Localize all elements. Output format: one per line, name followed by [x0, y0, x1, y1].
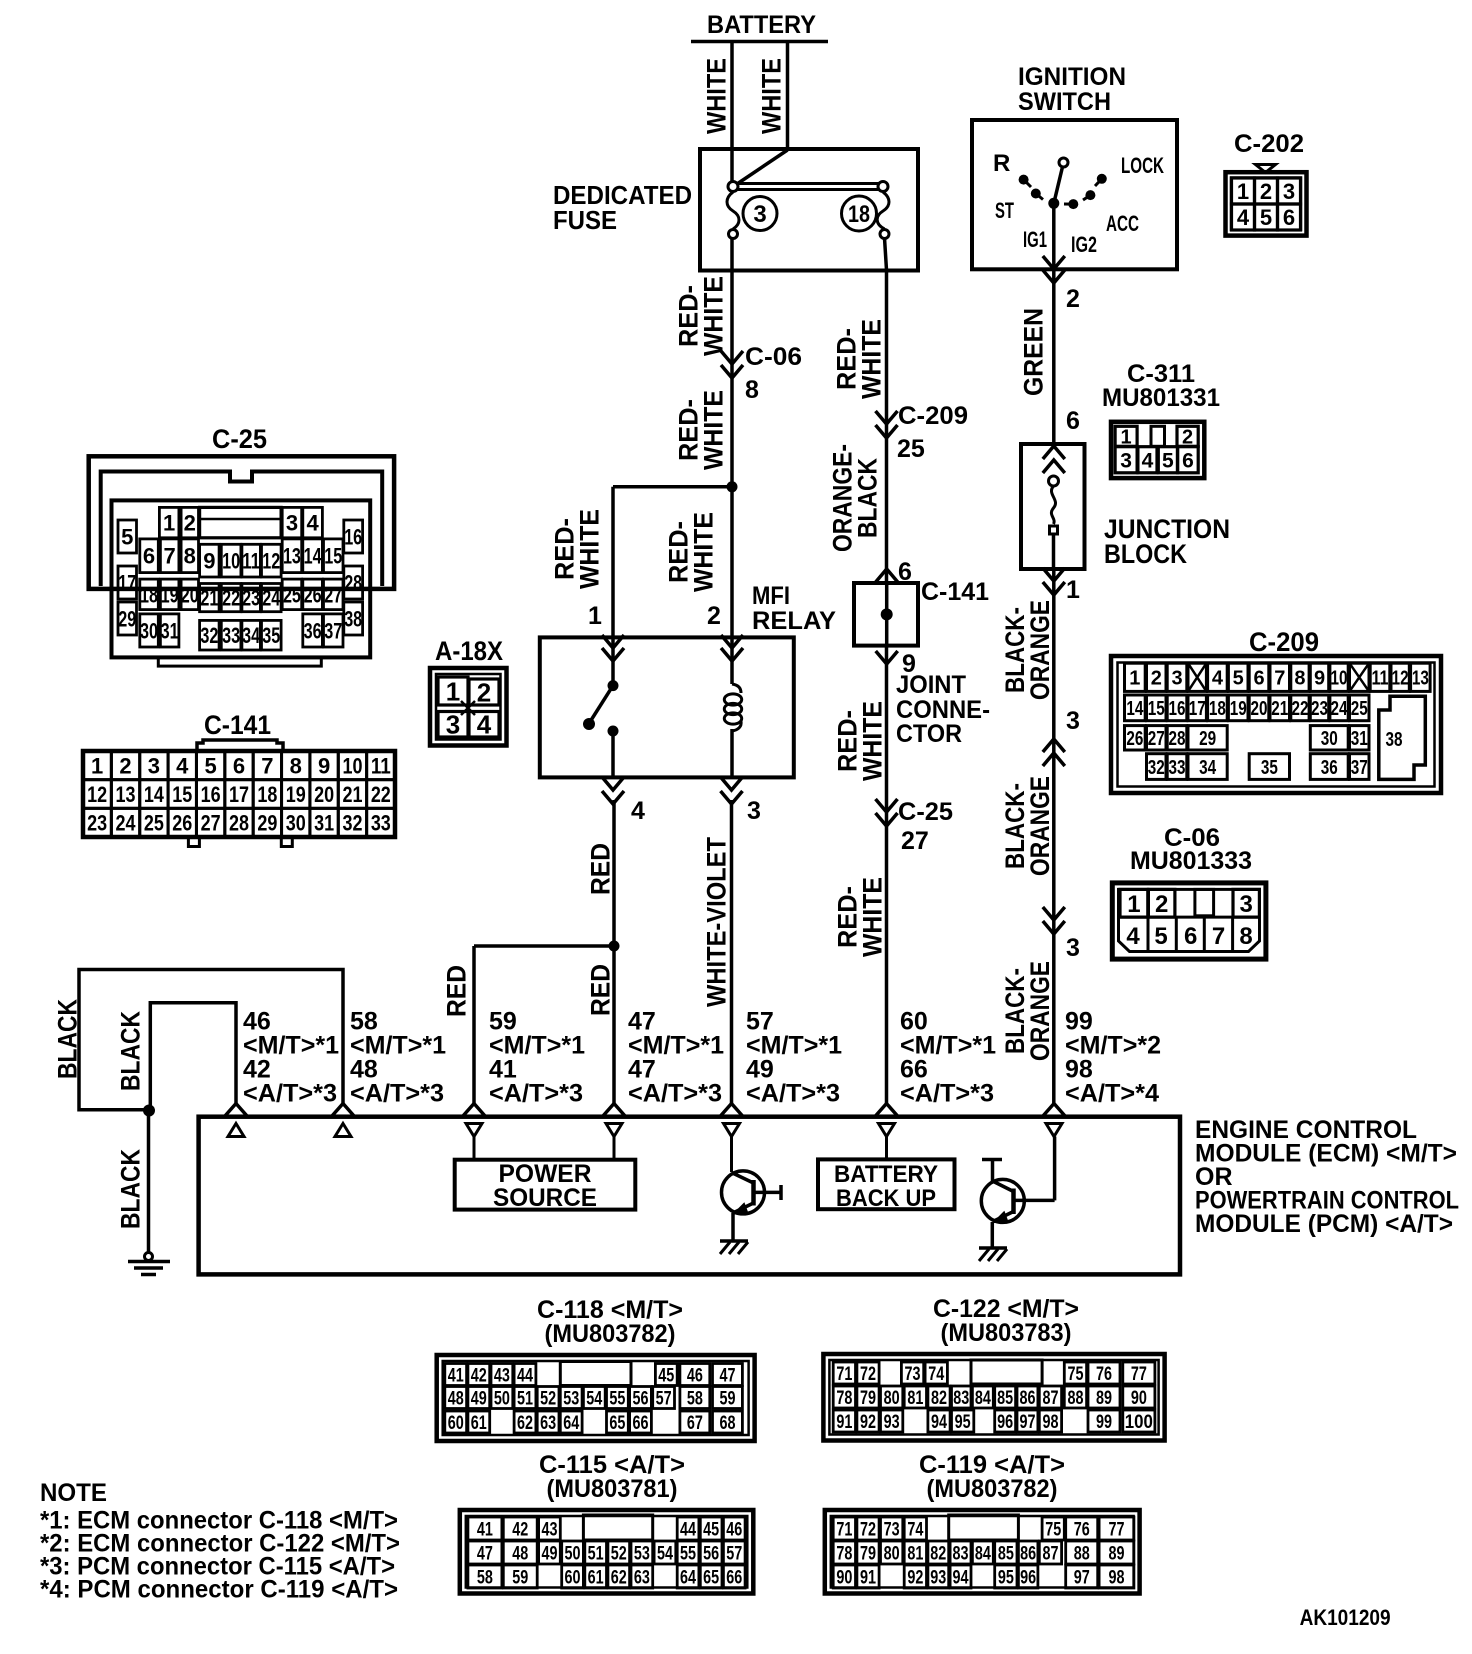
C-311 connector: [1111, 422, 1204, 478]
svg-text:MU801333: MU801333: [1130, 847, 1252, 875]
svg-text:SWITCH: SWITCH: [1018, 88, 1111, 116]
ECM box: [199, 1117, 1180, 1275]
svg-text:28: 28: [229, 811, 249, 836]
svg-text:6: 6: [233, 753, 245, 778]
svg-text:49: 49: [541, 1543, 557, 1564]
ECM entry fork 47: [603, 1104, 626, 1117]
svg-text:7: 7: [1212, 923, 1225, 950]
ECM pin triangle 59: [466, 1124, 482, 1137]
svg-text:<A/T>*3: <A/T>*3: [489, 1080, 583, 1108]
connector C-115: [460, 1510, 754, 1594]
connector C-141: [197, 740, 283, 751]
svg-text:44: 44: [517, 1365, 533, 1386]
MFI relay box: [540, 637, 794, 777]
transistor Q2 top cap: [982, 1158, 1002, 1162]
svg-text:61: 61: [471, 1413, 487, 1434]
svg-text:<A/T>*3: <A/T>*3: [350, 1080, 444, 1108]
svg-text:78: 78: [836, 1388, 852, 1409]
svg-text:83: 83: [953, 1543, 969, 1564]
svg-text:77: 77: [1131, 1364, 1147, 1385]
svg-text:29: 29: [257, 811, 277, 836]
svg-text:33: 33: [371, 811, 391, 836]
svg-text:96: 96: [1020, 1567, 1036, 1588]
svg-text:<A/T>*4: <A/T>*4: [1065, 1080, 1159, 1108]
svg-text:MODULE (ECM) <M/T>: MODULE (ECM) <M/T>: [1195, 1140, 1457, 1168]
svg-text:C-209: C-209: [898, 402, 968, 430]
junction block entry chevrons: [1043, 446, 1065, 459]
svg-text:3: 3: [1066, 934, 1080, 962]
svg-text:24: 24: [1331, 698, 1349, 720]
svg-text:60: 60: [448, 1413, 464, 1434]
svg-text:55: 55: [680, 1543, 696, 1564]
svg-text:57: 57: [656, 1388, 672, 1409]
ECM entry fork 58: [332, 1104, 355, 1117]
svg-text:BATTERY: BATTERY: [707, 11, 816, 39]
svg-text:WHITE: WHITE: [857, 319, 887, 399]
svg-text:<A/T>*3: <A/T>*3: [628, 1080, 722, 1108]
svg-text:51: 51: [588, 1543, 604, 1564]
branch red wire: [474, 944, 614, 948]
svg-text:64: 64: [680, 1567, 696, 1588]
svg-text:88: 88: [1067, 1388, 1083, 1409]
svg-text:26: 26: [304, 582, 322, 607]
svg-text:3: 3: [753, 201, 766, 228]
ignition contact R: [1019, 175, 1029, 185]
svg-text:96: 96: [997, 1412, 1013, 1433]
svg-text:33: 33: [222, 623, 240, 648]
svg-text:8: 8: [1239, 923, 1252, 950]
ignition contact ST: [1031, 189, 1041, 199]
svg-text:9: 9: [318, 753, 330, 778]
svg-text:28: 28: [1169, 728, 1186, 750]
svg-text:2: 2: [1151, 668, 1162, 690]
svg-text:IG1: IG1: [1023, 227, 1047, 252]
svg-text:ACC: ACC: [1106, 211, 1139, 236]
svg-text:26: 26: [172, 811, 192, 836]
svg-text:34: 34: [242, 623, 261, 648]
svg-text:RELAY: RELAY: [752, 607, 836, 635]
svg-text:3: 3: [1240, 891, 1253, 918]
svg-text:1: 1: [1066, 576, 1080, 604]
svg-text:42: 42: [512, 1519, 528, 1540]
svg-text:3: 3: [286, 511, 298, 536]
ECM pin triangle 58: [335, 1124, 351, 1137]
svg-text:R: R: [993, 150, 1010, 177]
svg-text:82: 82: [930, 1543, 946, 1564]
svg-text:37: 37: [1351, 757, 1368, 779]
wire junction to ECM (black-orange): [1052, 569, 1056, 1104]
svg-text:65: 65: [703, 1567, 719, 1588]
svg-text:42: 42: [471, 1365, 487, 1386]
svg-text:C-06: C-06: [745, 343, 802, 371]
svg-text:2: 2: [707, 602, 721, 630]
svg-text:3: 3: [446, 710, 460, 740]
svg-text:NOTE: NOTE: [40, 1479, 107, 1507]
svg-text:48: 48: [448, 1388, 464, 1409]
svg-text:82: 82: [931, 1388, 947, 1409]
svg-text:5: 5: [1154, 923, 1167, 950]
svg-text:84: 84: [975, 1543, 991, 1564]
svg-text:(MU803782): (MU803782): [927, 1475, 1058, 1503]
svg-text:1: 1: [1237, 179, 1249, 204]
fuse element 18: [877, 192, 889, 229]
junction block fuse lower lead: [1052, 534, 1056, 569]
svg-text:18: 18: [848, 201, 870, 228]
svg-text:66: 66: [633, 1413, 649, 1434]
ground wire: [147, 1110, 151, 1253]
svg-text:9: 9: [1314, 668, 1325, 690]
svg-text:13: 13: [116, 782, 136, 807]
svg-text:43: 43: [541, 1519, 557, 1540]
svg-text:10: 10: [342, 753, 362, 778]
ignition contact IG2: [1068, 199, 1078, 209]
svg-text:28: 28: [344, 570, 362, 595]
svg-text:18: 18: [140, 582, 158, 607]
svg-text:14: 14: [144, 782, 165, 807]
svg-text:WHITE: WHITE: [699, 276, 729, 356]
svg-text:1: 1: [1129, 668, 1140, 690]
svg-text:76: 76: [1074, 1519, 1090, 1540]
svg-text:25: 25: [1351, 698, 1368, 720]
svg-text:5: 5: [1260, 205, 1272, 230]
wire ignition IG1 down: [1052, 203, 1056, 444]
svg-text:87: 87: [1042, 1543, 1058, 1564]
node red branch: [609, 941, 620, 952]
C-25 crossing chevrons: [876, 799, 898, 812]
junction block box: [1021, 444, 1085, 569]
svg-text:27: 27: [1148, 728, 1165, 750]
svg-text:75: 75: [1067, 1364, 1083, 1385]
svg-text:3: 3: [1066, 707, 1080, 735]
ECM entry fork 46: [225, 1104, 248, 1117]
svg-text:81: 81: [907, 1388, 923, 1409]
svg-text:1: 1: [91, 753, 103, 778]
svg-text:WHITE: WHITE: [702, 58, 732, 134]
svg-text:11: 11: [1372, 668, 1389, 690]
svg-text:RED: RED: [586, 964, 616, 1016]
power source box: [455, 1160, 636, 1210]
svg-text:49: 49: [471, 1388, 487, 1409]
relay switch to pin4: [611, 731, 615, 778]
C-202 connector: [1226, 172, 1307, 235]
svg-text:RED: RED: [586, 843, 616, 895]
svg-text:72: 72: [860, 1364, 876, 1385]
svg-text:93: 93: [930, 1567, 946, 1588]
svg-text:1: 1: [163, 511, 175, 536]
svg-text:98: 98: [1109, 1567, 1125, 1588]
transistor Q1 emitter wire: [731, 1213, 735, 1240]
relay switch: [608, 680, 619, 691]
svg-text:4: 4: [631, 797, 645, 825]
svg-text:2: 2: [1066, 285, 1080, 313]
svg-text:4: 4: [1212, 668, 1224, 690]
svg-text:45: 45: [703, 1519, 719, 1540]
svg-text:22: 22: [222, 586, 240, 611]
svg-text:47: 47: [477, 1543, 493, 1564]
svg-text:1: 1: [1127, 891, 1140, 918]
svg-text:8: 8: [290, 753, 302, 778]
svg-text:32: 32: [1148, 757, 1165, 779]
joint connector entry chevron: [876, 569, 898, 582]
svg-text:14: 14: [1126, 698, 1144, 720]
svg-text:C-209: C-209: [1249, 627, 1319, 657]
svg-text:85: 85: [998, 1543, 1014, 1564]
svg-text:21: 21: [200, 586, 218, 611]
svg-text:ST: ST: [995, 198, 1014, 223]
svg-text:MODULE (PCM) <A/T>: MODULE (PCM) <A/T>: [1195, 1210, 1453, 1238]
black loop outer: [79, 970, 343, 1110]
svg-text:3: 3: [148, 753, 160, 778]
svg-text:IG2: IG2: [1071, 232, 1097, 257]
svg-text:71: 71: [836, 1519, 852, 1540]
svg-text:18: 18: [257, 782, 277, 807]
svg-text:46: 46: [726, 1519, 742, 1540]
svg-text:50: 50: [494, 1388, 510, 1409]
joint connector box: [854, 583, 918, 646]
svg-text:4: 4: [1237, 205, 1250, 230]
svg-text:53: 53: [634, 1543, 650, 1564]
svg-text:54: 54: [586, 1388, 602, 1409]
svg-text:3: 3: [1171, 668, 1182, 690]
svg-text:2: 2: [184, 511, 196, 536]
wire to relay pin2: [730, 487, 734, 638]
connector C-25: [89, 456, 394, 589]
ECM pin triangle 46: [228, 1124, 244, 1137]
svg-text:7: 7: [164, 544, 176, 569]
crossing chevrons down: [1043, 907, 1065, 920]
relay pin1 internal wire: [611, 637, 615, 686]
svg-text:SOURCE: SOURCE: [493, 1184, 597, 1212]
svg-text:27: 27: [901, 827, 929, 855]
svg-text:17: 17: [118, 570, 136, 595]
svg-text:97: 97: [1019, 1412, 1035, 1433]
svg-text:52: 52: [611, 1543, 627, 1564]
ignition contact ACC: [1085, 190, 1095, 200]
svg-text:89: 89: [1109, 1543, 1125, 1564]
ECM entry fork 57: [720, 1104, 743, 1117]
svg-text:36: 36: [304, 618, 322, 643]
svg-text:AK101209: AK101209: [1300, 1605, 1391, 1630]
wire battery to fuse 18 (white): [786, 41, 790, 150]
svg-text:FUSE: FUSE: [553, 205, 617, 235]
svg-text:12: 12: [1392, 668, 1409, 690]
relay pin1 chevrons: [602, 635, 624, 648]
svg-text:CTOR: CTOR: [896, 720, 962, 748]
svg-text:2: 2: [1260, 179, 1272, 204]
ignition switch rotor: [1054, 166, 1063, 203]
fuse 18 lower terminal: [880, 230, 889, 239]
svg-text:55: 55: [609, 1388, 625, 1409]
svg-text:91: 91: [836, 1412, 852, 1433]
svg-text:5: 5: [205, 753, 217, 778]
svg-text:59: 59: [719, 1388, 735, 1409]
svg-text:63: 63: [634, 1567, 650, 1588]
svg-text:22: 22: [1291, 698, 1308, 720]
joint connector node: [881, 608, 893, 620]
connector C-122: [823, 1354, 1164, 1441]
svg-text:37: 37: [324, 618, 342, 643]
svg-text:ORANGE: ORANGE: [1025, 600, 1055, 700]
svg-text:6: 6: [1283, 205, 1295, 230]
svg-text:3: 3: [747, 797, 761, 825]
svg-text:(MU803782): (MU803782): [545, 1320, 676, 1348]
svg-text:50: 50: [565, 1543, 581, 1564]
svg-text:A-18X: A-18X: [435, 636, 503, 666]
svg-text:RED: RED: [442, 965, 472, 1017]
svg-text:38: 38: [1386, 729, 1403, 751]
svg-text:75: 75: [1045, 1519, 1061, 1540]
svg-text:41: 41: [448, 1365, 464, 1386]
transistor Q2: [981, 1179, 1024, 1222]
svg-text:73: 73: [884, 1519, 900, 1540]
svg-text:23: 23: [87, 811, 107, 836]
svg-text:74: 74: [928, 1364, 944, 1385]
svg-text:27: 27: [324, 582, 342, 607]
svg-text:38: 38: [344, 606, 362, 631]
svg-text:43: 43: [494, 1365, 510, 1386]
svg-text:95: 95: [998, 1567, 1014, 1588]
svg-text:GREEN: GREEN: [1019, 308, 1049, 396]
svg-text:92: 92: [860, 1412, 876, 1433]
svg-text:61: 61: [588, 1567, 604, 1588]
svg-text:32: 32: [200, 623, 218, 648]
svg-text:C-141: C-141: [204, 710, 271, 740]
svg-text:2: 2: [119, 753, 131, 778]
svg-text:78: 78: [836, 1543, 852, 1564]
fuse feed diagonal: [737, 150, 788, 184]
svg-text:73: 73: [905, 1364, 921, 1385]
svg-text:80: 80: [884, 1388, 900, 1409]
svg-text:6: 6: [143, 544, 155, 569]
svg-text:C-202: C-202: [1234, 130, 1304, 158]
svg-text:19: 19: [1230, 698, 1247, 720]
dedicated fuse box: [700, 149, 918, 271]
svg-text:10: 10: [1331, 668, 1348, 690]
wire relay pin3 (white-violet): [730, 800, 734, 1104]
svg-text:92: 92: [907, 1567, 923, 1588]
wire fuse3 below: [730, 238, 734, 487]
node fuse3/relay branch: [727, 481, 738, 492]
svg-text:C-25: C-25: [212, 424, 267, 454]
svg-text:ORANGE: ORANGE: [1025, 961, 1055, 1061]
svg-text:17: 17: [1189, 698, 1206, 720]
svg-text:30: 30: [286, 811, 306, 836]
fuse 3 lower terminal: [729, 230, 738, 239]
svg-text:23: 23: [242, 586, 260, 611]
svg-text:56: 56: [703, 1543, 719, 1564]
svg-text:84: 84: [975, 1388, 991, 1409]
fuse bus bar: [737, 182, 879, 185]
svg-text:3: 3: [1120, 449, 1132, 472]
svg-text:13: 13: [283, 544, 301, 569]
svg-text:62: 62: [611, 1567, 627, 1588]
svg-text:BACK UP: BACK UP: [836, 1185, 936, 1212]
svg-text:16: 16: [1169, 698, 1186, 720]
svg-text:6: 6: [1184, 923, 1197, 950]
svg-text:BATTERY: BATTERY: [834, 1161, 938, 1188]
svg-text:6: 6: [1253, 668, 1264, 690]
connector C-209: [1111, 656, 1441, 793]
svg-text:(MU803781): (MU803781): [547, 1475, 678, 1503]
svg-text:C-25: C-25: [898, 798, 953, 826]
svg-text:4: 4: [477, 710, 492, 740]
relay pin2 internal wire: [730, 637, 734, 684]
svg-text:31: 31: [314, 811, 334, 836]
svg-text:12: 12: [87, 782, 107, 807]
svg-text:WHITE-VIOLET: WHITE-VIOLET: [702, 837, 732, 1007]
svg-text:BLACK: BLACK: [116, 1149, 146, 1229]
C-06 crossing chevrons: [721, 351, 743, 364]
svg-text:MU801331: MU801331: [1102, 384, 1220, 412]
ECM entry fork 60: [875, 1104, 898, 1117]
ECM entry fork 99: [1043, 1104, 1066, 1117]
svg-text:WHITE: WHITE: [689, 512, 719, 592]
svg-text:JOINT: JOINT: [896, 671, 966, 699]
svg-text:31: 31: [1351, 728, 1368, 750]
svg-text:6: 6: [1066, 407, 1080, 435]
svg-text:52: 52: [540, 1388, 556, 1409]
svg-text:7: 7: [1274, 668, 1285, 690]
wire joint connector to ECM (red-white): [885, 646, 889, 1104]
svg-text:25: 25: [144, 811, 164, 836]
svg-text:WHITE: WHITE: [757, 58, 787, 134]
branch wire to relay pin1: [613, 485, 732, 489]
svg-text:19: 19: [286, 782, 306, 807]
svg-text:76: 76: [1096, 1364, 1112, 1385]
svg-text:18: 18: [1209, 698, 1226, 720]
fuse 3 rating circle: [743, 197, 777, 231]
ECM pin triangle 47: [606, 1124, 622, 1137]
svg-text:4: 4: [176, 753, 189, 778]
black loop inner: [150, 1003, 236, 1111]
svg-text:11: 11: [371, 753, 391, 778]
svg-text:30: 30: [140, 618, 158, 643]
svg-text:BLACK: BLACK: [116, 1011, 146, 1091]
svg-text:59: 59: [512, 1567, 528, 1588]
svg-text:LOCK: LOCK: [1121, 153, 1164, 178]
svg-text:79: 79: [860, 1388, 876, 1409]
relay pin3 chevrons: [721, 777, 743, 790]
svg-text:95: 95: [955, 1412, 971, 1433]
svg-text:BLOCK: BLOCK: [1104, 539, 1187, 569]
ECM pin triangle 57: [724, 1124, 740, 1137]
svg-text:9: 9: [203, 549, 215, 574]
svg-text:1: 1: [446, 676, 460, 706]
svg-text:47: 47: [719, 1365, 735, 1386]
crossing chevrons up: [1043, 739, 1065, 752]
svg-text:8: 8: [1294, 668, 1305, 690]
svg-text:20: 20: [314, 782, 334, 807]
svg-text:11: 11: [242, 549, 260, 574]
svg-text:57: 57: [726, 1543, 742, 1564]
svg-text:20: 20: [1251, 698, 1268, 720]
svg-text:10: 10: [222, 549, 240, 574]
junction block exit chevrons: [1043, 568, 1065, 581]
relay coil: [732, 684, 741, 693]
svg-text:99: 99: [1096, 1412, 1112, 1433]
svg-text:67: 67: [687, 1413, 703, 1434]
svg-text:33: 33: [1169, 757, 1186, 779]
svg-text:5: 5: [121, 524, 133, 549]
C-209 crossing chevrons: [876, 411, 898, 424]
fuse 18 rating circle: [842, 196, 877, 231]
svg-text:36: 36: [1321, 757, 1338, 779]
svg-text:71: 71: [836, 1364, 852, 1385]
svg-text:41: 41: [477, 1519, 493, 1540]
svg-text:97: 97: [1074, 1567, 1090, 1588]
svg-text:7: 7: [261, 753, 273, 778]
ground Q1: [720, 1239, 748, 1243]
